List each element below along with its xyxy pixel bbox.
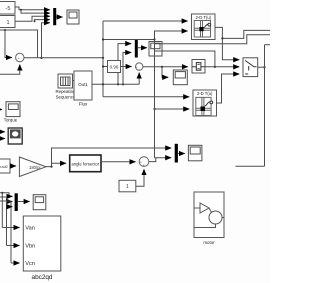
Flux subsystem block xyxy=(74,71,92,107)
svg-text:0.96: 0.96 xyxy=(110,65,119,70)
svg-text:Repeating: Repeating xyxy=(55,89,76,94)
wire C3 to sum S3 bottom xyxy=(136,169,144,186)
wire vertical Vc xyxy=(10,207,12,263)
svg-text:angle forsector: angle forsector xyxy=(71,161,99,166)
wire rad2hz to gain xyxy=(10,165,16,167)
mux M4 xyxy=(175,144,178,163)
wire mux M3 output to scope Sc5 xyxy=(18,201,30,203)
XY graph block xyxy=(8,128,22,144)
saturation block U1 xyxy=(192,60,205,74)
svg-text:Flux: Flux xyxy=(79,102,88,107)
wire C1 to mux M1 input1 xyxy=(15,7,50,10)
svg-text:Torque: Torque xyxy=(4,117,18,122)
wire Vc from edge to mux M3 input3 xyxy=(0,201,12,207)
wire sum S3 output joins trunk to mux M4 input2 xyxy=(149,158,156,162)
wires into XY graph xyxy=(0,131,5,133)
wire trunk bottom to left xyxy=(235,165,264,167)
block rad2hz xyxy=(0,159,10,173)
junction A xyxy=(40,57,42,59)
sum S1 xyxy=(136,63,143,72)
wire saturation output to switch input2 xyxy=(205,66,239,68)
wire 0.96 output to sum S1 xyxy=(121,66,132,68)
wire Flux Out1 to sum S1 bottom branch xyxy=(92,83,139,85)
wire sum S1 output to saturation block xyxy=(143,66,188,68)
wire to lookup L2 input2 xyxy=(155,108,190,110)
lookup table L2 2-D T(u) xyxy=(193,90,217,116)
motor subsystem xyxy=(194,192,224,245)
switch block xyxy=(243,58,258,77)
svg-text:Vbn: Vbn xyxy=(25,244,35,250)
wire Vbn input xyxy=(7,245,20,247)
mux M3 xyxy=(15,193,18,211)
wire 0.96 input stub xyxy=(103,66,108,68)
svg-text:Van: Van xyxy=(25,226,35,232)
junction xyxy=(34,20,36,22)
svg-text:2-D T(u): 2-D T(u) xyxy=(197,91,213,96)
wire feedback into sum S2 bottom xyxy=(0,65,20,75)
svg-text:Out1: Out1 xyxy=(78,82,88,87)
mux M2 xyxy=(135,40,138,58)
constant C1 "-5" xyxy=(0,2,15,15)
wire gain output to angle block xyxy=(46,163,66,166)
wire junction A up to mux M1 input5 xyxy=(42,23,50,58)
wire lookup L1 output to switch input1 xyxy=(215,27,239,59)
junction xyxy=(4,29,6,31)
wire branch up to mux M4 input1 xyxy=(52,148,172,167)
scope Sc2 xyxy=(67,10,79,24)
wire trunk bottom elbow to lookup L2 input1 xyxy=(103,96,189,98)
wire switch output to right trunk xyxy=(258,66,265,68)
wire Vb from edge to mux M3 input2 xyxy=(0,197,12,202)
scope Sc4 xyxy=(188,145,202,161)
svg-text:Sequence: Sequence xyxy=(56,94,76,99)
wire branch to mux M1 input2 xyxy=(21,10,50,13)
svg-text:180/pi: 180/pi xyxy=(29,165,40,170)
constant C3 "1" xyxy=(119,180,136,192)
wire up to lookup L1 input2 xyxy=(155,31,188,40)
wire mux M1 output to scope Sc2 xyxy=(56,16,62,18)
wire sum S2 output to node B xyxy=(24,57,103,59)
scope Sc1 xyxy=(149,42,162,57)
wire up into sum S1 bottom xyxy=(138,73,140,85)
junction xyxy=(20,9,22,11)
scope Sc3 xyxy=(173,70,187,85)
wire Vcn input xyxy=(11,262,20,264)
wire to sum S2 left input xyxy=(5,30,12,58)
svg-text:abc2qd: abc2qd xyxy=(32,274,53,281)
wire from left edge to junction A xyxy=(0,30,38,58)
wire Van input xyxy=(2,227,19,229)
svg-text:1: 1 xyxy=(126,184,129,190)
right trunk vertical xyxy=(264,45,266,167)
wire vertical Va xyxy=(1,193,3,228)
svg-text:-5: -5 xyxy=(6,6,11,12)
wire mux M2 output to scope Sc1 xyxy=(138,47,147,49)
svg-text:2-D T(u): 2-D T(u) xyxy=(196,15,212,20)
wire from trunk down to saturation output node xyxy=(155,51,215,67)
svg-text:1: 1 xyxy=(6,20,9,26)
wire trunk top to right edge xyxy=(265,44,271,46)
node B vertical trunk xyxy=(102,21,104,97)
sum S3 xyxy=(139,157,149,168)
wire lookup L2 output up to switch input3 xyxy=(217,74,240,103)
wire tap to mux M2 input1 xyxy=(118,44,131,85)
wire branch down to scope Sc3 xyxy=(162,67,168,78)
wire trunk to lookup L1 input1 xyxy=(103,20,188,22)
wire vertical Vb xyxy=(6,202,8,246)
constant C2 "1" xyxy=(0,16,15,28)
svg-text:motor: motor xyxy=(203,240,215,245)
svg-text:rad2: rad2 xyxy=(0,165,8,169)
wire branch stair to right edge xyxy=(222,30,270,38)
gain block 0.96 xyxy=(108,61,121,73)
angle forsector block xyxy=(70,155,101,172)
lookup table L1 2-D T(u) xyxy=(192,14,216,40)
gain 180/pi xyxy=(19,157,46,177)
svg-text:Vcn: Vcn xyxy=(25,261,35,267)
long vertical trunk x154.5 xyxy=(154,40,156,158)
wire angle block output to sum S3 xyxy=(101,161,136,163)
wire up to mux M2 input2 xyxy=(123,53,131,85)
sum S2 xyxy=(16,53,24,63)
wire from trunk stair to right edge xyxy=(155,35,271,44)
wire C2 to mux M1 input3 xyxy=(15,16,50,21)
scope Sc5 xyxy=(33,195,46,210)
wire trunk across at y39.5 xyxy=(103,39,155,41)
scope Torque xyxy=(4,102,20,123)
wire Va from edge to mux M3 input1 xyxy=(0,193,12,197)
Repeating Sequence block xyxy=(55,74,76,99)
mux M1 xyxy=(53,8,56,25)
svg-text:+: + xyxy=(138,68,140,72)
wire branch to mux M1 input4 xyxy=(35,20,50,22)
abc2qd subsystem xyxy=(23,216,61,281)
wire into Torque scope xyxy=(0,108,2,110)
wire mux M4 output to scope Sc4 xyxy=(178,153,185,155)
